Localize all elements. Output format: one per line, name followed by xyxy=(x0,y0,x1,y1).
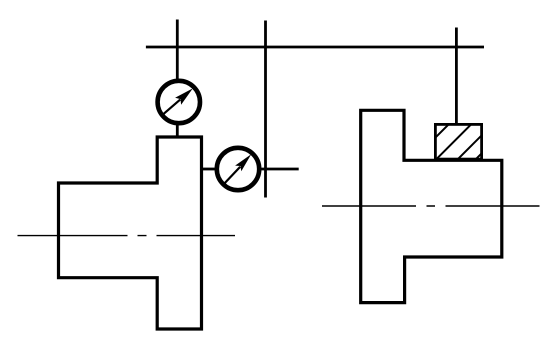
gauge 1 needle xyxy=(162,88,193,115)
dial indicator gauge 2 circle xyxy=(217,148,259,190)
hatched block (indicator anvil) hatch lines xyxy=(425,113,515,166)
gauge 1 stem to part xyxy=(176,123,179,138)
right part outline (stepped shaft) xyxy=(361,110,502,302)
left part centerline xyxy=(18,235,236,237)
left part outline (stepped shaft) xyxy=(59,137,202,329)
tick / holder rod above gauge 1 xyxy=(176,20,179,80)
top reference line xyxy=(146,46,484,49)
gauge 2 holder stub (right) xyxy=(259,168,299,171)
dial indicator gauge 1 circle xyxy=(158,81,200,123)
hatched block outline xyxy=(435,124,481,159)
tick / holder rod 2 xyxy=(264,21,267,198)
gauge 2 needle xyxy=(225,154,252,183)
right part centerline xyxy=(322,205,540,207)
tick / holder rod above hatched block xyxy=(455,28,458,125)
gauge 2 stem to part (left stub) xyxy=(200,168,215,171)
